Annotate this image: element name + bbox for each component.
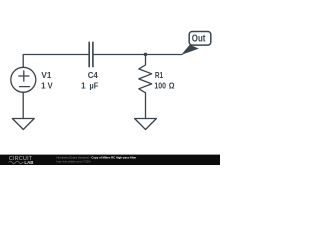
svg-text:100: 100 bbox=[154, 80, 166, 90]
svg-text:1: 1 bbox=[41, 80, 46, 90]
svg-text:Ω: Ω bbox=[169, 80, 175, 90]
svg-text:Out: Out bbox=[192, 34, 206, 45]
svg-text:V1: V1 bbox=[41, 70, 51, 80]
svg-text:LAB: LAB bbox=[24, 160, 33, 165]
svg-text:1: 1 bbox=[81, 80, 86, 90]
svg-text:R1: R1 bbox=[155, 70, 164, 80]
svg-text:µF: µF bbox=[90, 80, 99, 90]
svg-text:C4: C4 bbox=[88, 70, 98, 80]
svg-text:V: V bbox=[48, 80, 53, 90]
svg-text:http://circuitlab.com/c/7326r: http://circuitlab.com/c/7326r bbox=[57, 159, 91, 163]
